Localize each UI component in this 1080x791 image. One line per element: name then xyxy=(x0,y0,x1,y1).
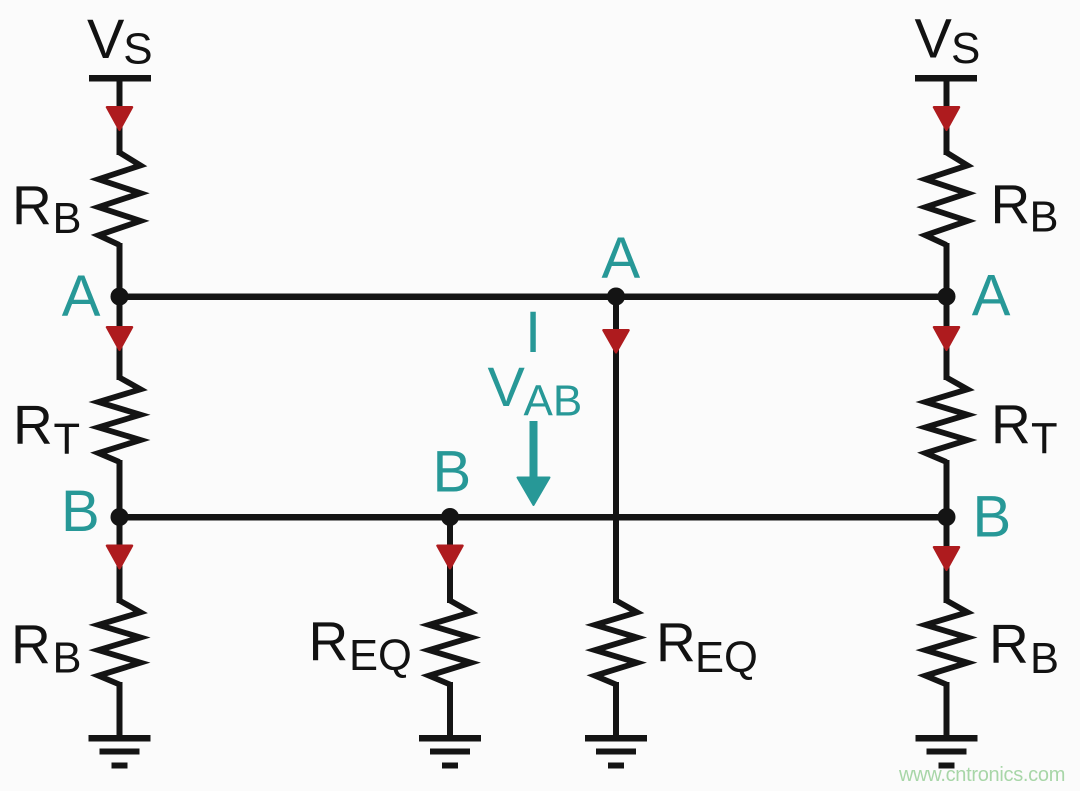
label RB left top xyxy=(12,174,82,243)
current arrow left below A xyxy=(107,327,132,350)
resistor RB left top xyxy=(99,153,141,246)
svg-text:A: A xyxy=(602,226,641,291)
wire left column: bar to RB xyxy=(117,78,123,155)
label VAB xyxy=(488,355,583,426)
svg-text:R: R xyxy=(991,173,1031,235)
resistor REQ right (middle column) xyxy=(595,601,637,685)
current arrow right top xyxy=(934,107,959,130)
wire right column: node B to RB xyxy=(944,517,950,603)
current arrow right below B xyxy=(934,547,959,570)
ground middle right xyxy=(585,735,647,769)
svg-text:B: B xyxy=(433,440,472,505)
wire node B horizontal (B rail) xyxy=(120,514,947,521)
svg-text:A: A xyxy=(62,264,101,329)
wire middle column A: REQ to ground xyxy=(613,682,619,737)
label REQ right xyxy=(656,611,758,682)
current arrow middle below A xyxy=(604,330,629,352)
svg-text:B: B xyxy=(973,485,1012,550)
svg-text:R: R xyxy=(309,610,349,672)
svg-text:S: S xyxy=(951,24,980,73)
resistor REQ left (middle column) xyxy=(429,601,471,685)
wire node A horizontal (A rail) xyxy=(120,294,947,301)
wire middle column A: node A down to REQ xyxy=(613,296,619,603)
svg-text:R: R xyxy=(991,393,1031,455)
resistor RT left xyxy=(99,378,141,463)
svg-text:T: T xyxy=(1031,415,1058,463)
svg-text:B: B xyxy=(53,195,82,243)
svg-text:V: V xyxy=(87,7,125,70)
resistor RT right xyxy=(926,378,968,463)
svg-text:R: R xyxy=(13,394,53,456)
svg-text:V: V xyxy=(915,7,953,70)
svg-text:EQ: EQ xyxy=(695,634,758,682)
current arrow middle below B xyxy=(438,546,463,569)
svg-text:AB: AB xyxy=(524,377,583,426)
svg-text:I: I xyxy=(525,300,541,365)
ground left xyxy=(89,735,151,769)
node A left junction dot xyxy=(111,288,129,306)
node B right junction dot xyxy=(938,508,956,526)
label RB right bottom xyxy=(989,613,1059,684)
svg-text:R: R xyxy=(11,613,51,675)
wire left column: RB to ground xyxy=(117,682,123,737)
node A right junction dot xyxy=(938,288,956,306)
wire right column: bar to RB xyxy=(944,78,950,155)
wire middle column B: node B down to REQ xyxy=(447,517,453,603)
node B middle junction dot xyxy=(441,508,459,526)
resistor RB right top xyxy=(926,153,968,246)
wire left column: node B to RB xyxy=(117,517,123,603)
node A middle junction dot xyxy=(607,288,625,306)
wire right column: RB to node A xyxy=(944,243,950,299)
svg-text:R: R xyxy=(12,174,52,236)
wire left column: node A to RT xyxy=(117,296,123,380)
ground right xyxy=(916,735,978,769)
label RB right top xyxy=(991,173,1059,242)
label RT left xyxy=(13,394,80,464)
supply VS right bar xyxy=(915,75,977,82)
label REQ left xyxy=(309,610,412,680)
svg-text:B: B xyxy=(61,479,100,544)
svg-text:B: B xyxy=(1030,194,1059,242)
current arrow left top xyxy=(107,107,132,130)
wire right column: RB to ground xyxy=(944,682,950,737)
ground middle left xyxy=(419,735,481,769)
svg-text:T: T xyxy=(54,416,81,464)
current arrow left below B xyxy=(107,546,132,569)
wire middle column B: REQ to ground xyxy=(447,682,453,737)
node B left junction dot xyxy=(111,508,129,526)
svg-text:S: S xyxy=(123,25,152,74)
supply VS left bar xyxy=(89,75,151,82)
svg-text:B: B xyxy=(53,635,82,683)
wire left column: RB to node A xyxy=(117,243,123,299)
wire left column: RT to node B xyxy=(117,460,123,520)
wire right column: RT to node B xyxy=(944,460,950,520)
svg-text:EQ: EQ xyxy=(349,632,412,680)
svg-text:B: B xyxy=(1030,635,1059,683)
svg-text:A: A xyxy=(972,264,1011,329)
supply VS right label xyxy=(915,7,981,74)
arrow VAB (teal voltage arrow) xyxy=(518,421,550,505)
svg-text:R: R xyxy=(656,611,696,673)
label RB left bottom xyxy=(11,613,82,683)
svg-text:www.cntronics.com: www.cntronics.com xyxy=(898,764,1065,786)
svg-text:R: R xyxy=(989,613,1029,675)
label RT right xyxy=(991,393,1058,463)
resistor RB left bottom xyxy=(99,601,141,685)
svg-text:V: V xyxy=(488,355,526,418)
wire right column: node A to RT xyxy=(944,296,950,380)
supply VS left label xyxy=(87,7,153,74)
current arrow right below A xyxy=(934,327,959,350)
resistor RB right bottom xyxy=(926,601,968,685)
